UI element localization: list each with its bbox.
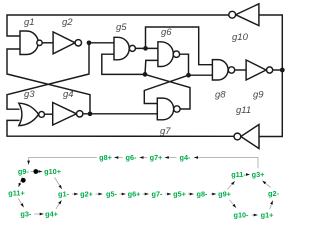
svg-text:g4-: g4-: [180, 153, 192, 162]
wire g5 output junction up and over to g8 top input: [146, 27, 213, 65]
wire g2 output to g5 top input: [89, 42, 114, 44]
nand gate g6: [158, 42, 173, 67]
svg-text:g7: g7: [160, 126, 171, 137]
STG arc g6- to g8+: [114, 157, 123, 159]
STG arc g4- to g7+: [165, 157, 177, 159]
nand gate g7: [157, 98, 173, 120]
wire g8 output to g9: [235, 69, 246, 71]
STG arc g10- to g1+: [252, 214, 258, 216]
STG arc g7+ to g6-: [140, 157, 148, 159]
junction dot g4 output: [88, 111, 93, 116]
svg-text:g7+: g7+: [150, 153, 163, 162]
svg-text:g11-: g11-: [231, 170, 246, 179]
wire top feedback from g10 output to g1 input: [7, 15, 229, 36]
STG arc g5+ to g8-: [188, 193, 194, 195]
wire g6 junction to g8 lower input: [189, 74, 213, 76]
STG arc g10+ to g1-: [55, 177, 62, 189]
junction dot g6 output: [186, 73, 191, 78]
STG arc g9+ to g10-: [230, 200, 237, 208]
svg-text:g7-: g7-: [152, 190, 164, 199]
svg-text:g5: g5: [116, 22, 127, 33]
STG arc g7- to g5+: [166, 193, 172, 195]
svg-text:g6-: g6-: [126, 153, 138, 162]
STG arc g4+ to g1-: [56, 200, 62, 209]
svg-text:g8: g8: [215, 90, 226, 101]
bubble g10: [229, 11, 236, 18]
wire g1 output to g2: [42, 42, 53, 44]
nand gate g1: [20, 31, 38, 55]
svg-text:g9+: g9+: [218, 190, 231, 199]
wire g6 lower input from latch node: [145, 60, 158, 74]
svg-text:g6+: g6+: [128, 190, 141, 199]
bubble g2: [75, 40, 81, 46]
bubble g4: [77, 111, 83, 117]
wire g3 output to g4: [45, 113, 53, 115]
STG arc g2+ to g5-: [96, 193, 103, 195]
bubble g9: [267, 67, 273, 73]
svg-text:g3+: g3+: [252, 170, 265, 179]
bubble g11: [234, 133, 241, 140]
bubble g5: [129, 45, 135, 51]
inverter g10 (points left): [236, 4, 259, 26]
STG arc g9+ to g11-: [228, 181, 235, 189]
bubble g8: [228, 67, 234, 73]
svg-text:g9: g9: [253, 90, 264, 101]
STG arc g11- to g3+: [247, 174, 250, 176]
wire g6 output down to junction: [179, 54, 188, 75]
STG arc g1+ to g2-: [270, 201, 273, 210]
STG arc g9- to g11+: [19, 177, 23, 188]
svg-text:g10-: g10-: [233, 211, 249, 220]
svg-text:g4: g4: [63, 89, 74, 100]
wire g9 output junction: [273, 69, 283, 71]
token on arc g9- to g10+: [33, 169, 38, 174]
inverter g11 (points left): [241, 125, 259, 149]
STG arc g1- to g2+: [72, 193, 78, 195]
nand gate g5: [114, 37, 129, 60]
svg-text:g6: g6: [161, 27, 172, 38]
svg-text:g1+: g1+: [261, 211, 274, 220]
bubble g6: [173, 51, 179, 57]
wire g2 output down cross to g3 top input: [7, 43, 89, 109]
svg-text:g2+: g2+: [80, 190, 93, 199]
svg-text:g3-: g3-: [20, 210, 32, 219]
wire g3 lower input from bottom feedback: [7, 120, 234, 136]
svg-text:g1: g1: [24, 17, 35, 28]
svg-text:g10+: g10+: [44, 167, 61, 176]
STG arc g6+ to g7-: [143, 193, 149, 195]
svg-text:g2-: g2-: [268, 189, 280, 198]
STG arc g11+ to g3-: [18, 199, 23, 208]
svg-text:g11: g11: [236, 105, 251, 116]
wire g7 output up cross to latch node: [145, 74, 190, 109]
junction dot g9 output: [280, 68, 285, 73]
svg-text:g3: g3: [24, 89, 35, 100]
svg-text:g1-: g1-: [58, 190, 70, 199]
svg-text:g8-: g8-: [197, 190, 209, 199]
svg-text:g8+: g8+: [99, 153, 112, 162]
wire g5 lower input feedback: [102, 54, 145, 74]
wire g4 output to g7 lower input: [83, 113, 157, 115]
inverter g4: [53, 103, 77, 126]
wire g5 output to g6 top input: [135, 47, 158, 49]
wire g1 lower input from g4 via cross: [7, 49, 90, 114]
junction dot g2 output: [87, 40, 92, 45]
bubble g3: [39, 112, 45, 118]
bubble g7: [174, 106, 180, 112]
svg-text:g4+: g4+: [45, 210, 58, 219]
wire right vertical g9 to g10 and g11 inputs: [259, 15, 282, 137]
svg-text:g9-: g9-: [18, 167, 30, 176]
svg-text:g10: g10: [232, 32, 249, 43]
STG arc g8+ to g9-: [29, 158, 97, 165]
svg-text:g2: g2: [62, 17, 73, 28]
bubble g1: [37, 40, 42, 45]
svg-text:g11+: g11+: [8, 189, 24, 198]
STG arc g5- to g6+: [120, 193, 126, 195]
STG arc g3- to g4+: [34, 213, 44, 215]
nor gate g3: [19, 103, 39, 125]
STG arc g8- to g9+: [211, 193, 217, 195]
STG arc g9- to g10+: [31, 171, 43, 173]
STG arc g2- to g3+: [262, 181, 270, 188]
STG arc g3+ to g4-: [194, 158, 258, 169]
inverter g2: [53, 32, 75, 54]
svg-text:g5+: g5+: [173, 190, 186, 199]
svg-text:g5-: g5-: [106, 190, 118, 199]
inverter g9: [246, 60, 266, 80]
wire g6 junction cross to g7 top input: [144, 75, 188, 103]
token on arc g9- to g11+: [21, 178, 26, 183]
junction dot g5 output: [143, 46, 148, 51]
nand gate g8: [212, 60, 228, 80]
junction dot latch node left: [143, 72, 148, 77]
